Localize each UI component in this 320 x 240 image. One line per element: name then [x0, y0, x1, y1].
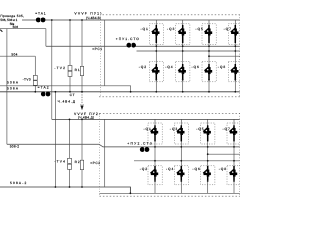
svg-text:R2: R2 — [75, 160, 80, 164]
svg-text:-ТV3: -ТV3 — [23, 77, 31, 81]
svg-text:-Q6: -Q6 — [192, 167, 200, 171]
svg-text:-Q8: -Q8 — [218, 65, 226, 69]
svg-text:-Q7: -Q7 — [223, 127, 231, 131]
svg-text:(Ч.4В4.Д): (Ч.4В4.Д) — [78, 115, 94, 119]
svg-text:-Q6: -Q6 — [192, 65, 200, 69]
svg-text:=ТА2: =ТА2 — [38, 85, 49, 89]
svg-text:-Q8: -Q8 — [219, 167, 227, 171]
svg-text:(Ч.4В4.В): (Ч.4В4.В) — [86, 16, 101, 20]
svg-text:-ТV2: -ТV2 — [54, 66, 65, 70]
svg-text:R1: R1 — [75, 68, 80, 72]
svg-text:-Q4: -Q4 — [166, 167, 174, 171]
svg-text:-Q3: -Q3 — [170, 127, 178, 131]
svg-text:-Q2: -Q2 — [139, 65, 147, 69]
svg-text:-Q5: -Q5 — [195, 27, 203, 31]
svg-text:504: 504 — [11, 53, 17, 57]
svg-text:-Q1: -Q1 — [141, 27, 149, 31]
svg-text:-Q5: -Q5 — [196, 127, 204, 131]
svg-text:-Q2: -Q2 — [140, 167, 148, 171]
svg-text:VVVF ПУ1): VVVF ПУ1) — [74, 12, 101, 16]
svg-text:+ПУ1.СТО: +ПУ1.СТО — [116, 37, 139, 41]
svg-text:=РС2: =РС2 — [90, 161, 100, 165]
svg-text:508А: 508А — [7, 80, 19, 84]
svg-text:=ТА1: =ТА1 — [35, 11, 46, 15]
svg-text:506: 506 — [13, 25, 19, 29]
svg-text:-Q1: -Q1 — [144, 127, 152, 131]
svg-text:-Q3: -Q3 — [167, 27, 175, 31]
svg-text:СТ: СТ — [70, 93, 75, 97]
svg-text:508А: 508А — [7, 86, 19, 90]
svg-text:-Q7: -Q7 — [224, 27, 232, 31]
svg-text:=РС1: =РС1 — [92, 47, 102, 51]
svg-text:-Q4: -Q4 — [165, 65, 173, 69]
svg-text:Ч.4В4.Д: Ч.4В4.Д — [58, 99, 76, 103]
svg-text:508А-2: 508А-2 — [10, 181, 27, 185]
svg-text:-ТV4: -ТV4 — [54, 160, 65, 164]
svg-text:508-2: 508-2 — [10, 145, 20, 149]
